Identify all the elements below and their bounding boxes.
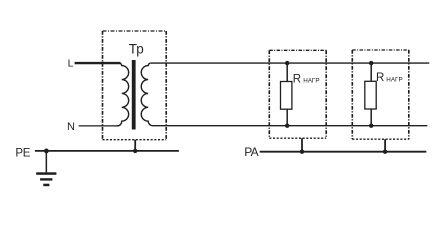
svg-text:НАГР: НАГР: [303, 78, 319, 85]
wire PA: [260, 151, 427, 153]
wire N out (secondary bottom to right): [153, 125, 428, 127]
junction dot enclosure1-PA: [300, 150, 304, 154]
wire enclosure1 to PA: [301, 138, 303, 152]
resistor R load 1 leads: [286, 63, 288, 81]
svg-text:N: N: [67, 121, 75, 133]
junction dot R1 bottom on N: [285, 124, 289, 128]
svg-text:PA: PA: [244, 145, 258, 159]
svg-text:R: R: [376, 72, 384, 84]
transformer primary winding: [117, 63, 129, 126]
wire enclosure2 to PA: [384, 139, 386, 152]
junction dot PE-ground: [44, 149, 49, 154]
wire N lead-in: [79, 125, 118, 127]
ground symbol: [36, 151, 56, 186]
transformer core: [132, 60, 136, 130]
svg-text:НАГР: НАГР: [386, 76, 402, 83]
svg-text:Тр: Тр: [129, 42, 144, 57]
wire PE: [35, 150, 179, 152]
resistor R load 1 body: [281, 82, 292, 110]
svg-text:L: L: [68, 58, 74, 70]
junction dot R2 bottom on N: [369, 124, 373, 128]
transformer shield box Tp: [103, 31, 167, 140]
svg-text:PE: PE: [15, 147, 30, 159]
resistor R load 2 leads: [370, 63, 372, 81]
wire L lead-in: [75, 62, 121, 64]
load enclosure box 1: [269, 50, 326, 138]
junction dot R1 top on L: [285, 61, 289, 65]
load enclosure box 2: [352, 50, 409, 139]
wire L out (secondary top to right): [151, 62, 429, 64]
transformer secondary winding: [141, 63, 153, 126]
junction dot shield-PE: [133, 149, 137, 153]
svg-text:R: R: [293, 73, 301, 85]
resistor R load 2 body: [365, 81, 376, 109]
junction dot enclosure2-PA: [383, 150, 387, 154]
junction dot R2 top on L: [369, 61, 373, 65]
wire transformer shield to PE: [134, 140, 136, 151]
